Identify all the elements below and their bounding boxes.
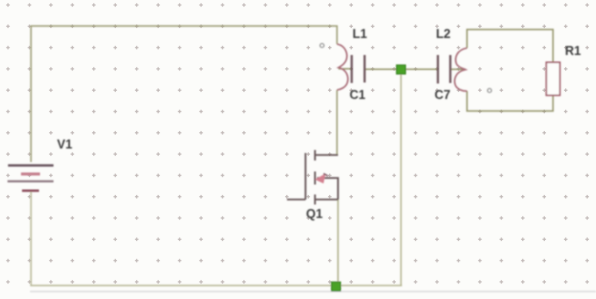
svg-text:C7: C7 xyxy=(435,88,451,102)
svg-text:Q1: Q1 xyxy=(306,207,323,221)
svg-text:C1: C1 xyxy=(350,88,366,102)
svg-text:V1: V1 xyxy=(57,138,72,152)
svg-text:L1: L1 xyxy=(353,27,368,41)
svg-text:R1: R1 xyxy=(565,44,581,58)
svg-text:L2: L2 xyxy=(436,27,451,41)
